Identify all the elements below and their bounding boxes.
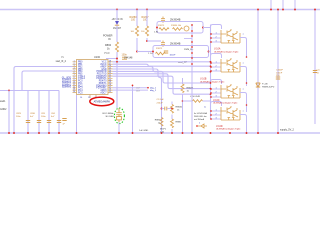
wire IC gnd drop x76.5 — [76, 95, 78, 133]
wire bus fan 1 — [113, 64, 211, 66]
svg-text:100: 100 — [131, 19, 136, 22]
junction x117/y58 — [116, 58, 118, 60]
wire bus fan 4 — [113, 71, 211, 83]
IC U100 ATmega body — [77, 60, 109, 95]
svg-text:100nF: 100nF — [276, 72, 283, 74]
svg-text:B2MINI0: B2MINI0 — [62, 87, 72, 89]
box Q2 driver — [153, 46, 209, 58]
transistor Q1 — [184, 26, 189, 31]
svg-text:supply_5V_2: supply_5V_2 — [280, 129, 294, 132]
svg-text:U 10C: U 10C — [213, 100, 220, 102]
diode D102 on x258 — [256, 83, 260, 87]
bottom rail junction dots — [191, 132, 193, 134]
capacitor C5 100n — [122, 57, 127, 59]
darlington cell U10D — [211, 102, 222, 107]
wire crystal to gnd — [118, 122, 120, 133]
wire bus fan 6 — [113, 76, 211, 94]
svg-text:ULN/SA Darlington Triple: ULN/SA Darlington Triple — [216, 128, 241, 131]
box Q1 driver — [157, 22, 203, 34]
svg-text:ULN/SA Darlington Triple: ULN/SA Darlington Triple — [213, 102, 238, 105]
resistor R884B inline on x182.5 — [182, 78, 184, 84]
junction x137 y51.5 — [136, 51, 138, 53]
wire L2 to IC — [22, 71, 73, 91]
wire stub row 87.7 with net label — [113, 87, 149, 89]
wire output U10B — [240, 67, 247, 87]
darlington cell U10C — [211, 80, 222, 85]
wire bus straight row — [113, 61, 211, 63]
svg-text:U 10D: U 10D — [216, 126, 223, 128]
wire x9 drop — [8, 91, 10, 134]
wire vertical rail C x314 — [314, 10, 316, 125]
highlight green dashed ellipse — [114, 108, 124, 124]
junction x117 row1 — [116, 61, 118, 63]
resistor R1878 — [173, 28, 183, 31]
wire supply stub x282 — [282, 0, 284, 10]
svg-text:C17: C17 — [317, 70, 320, 72]
wire output U10D — [240, 115, 247, 135]
wire x147 to C16 — [147, 40, 161, 42]
svg-text:PWM_B +: PWM_B + — [184, 49, 194, 51]
svg-text:PWR: PWR — [104, 52, 110, 55]
capacitor C85 — [62, 119, 66, 121]
svg-text:30 OHM: 30 OHM — [105, 116, 113, 118]
wire supply stub x270 — [270, 0, 272, 10]
junction x147 y41 — [146, 40, 148, 42]
svg-text:R885: R885 — [155, 120, 161, 122]
wire output U10C — [240, 93, 247, 113]
resistor R884b drop x172 — [171, 102, 173, 105]
wire vertical rail B x278 — [277, 10, 279, 134]
wire bus fan 5 — [113, 74, 211, 89]
diode D100 1N4007 — [115, 21, 119, 25]
svg-text:1x: 1x — [204, 107, 206, 109]
wire vertical rail A x258 — [257, 10, 259, 134]
wire drop x182.5 lower — [182, 101, 184, 133]
svg-text:GND2: GND2 — [0, 109, 7, 111]
wire x117 down to crystal — [116, 52, 118, 108]
junction dots on top rail — [116, 9, 118, 11]
wire drop x132.5 — [132, 85, 134, 133]
wire top +5V rail — [0, 9, 320, 11]
svg-text:R1880 10k: R1880 10k — [171, 25, 182, 27]
svg-text:U 10B: U 10B — [200, 79, 207, 81]
wire left GND horizontal — [0, 90, 59, 92]
wire L1 to IC — [14, 67, 73, 134]
svg-text:100nF: 100nF — [170, 54, 177, 56]
wire stub row 90.1 with net label — [113, 89, 149, 91]
svg-text:R1875: R1875 — [156, 48, 163, 50]
wire stubs left of x192 — [184, 32, 192, 34]
svg-text:U100: U100 — [94, 56, 101, 59]
resistor R885 on x161.5 — [160, 118, 163, 127]
darlington cell U10B — [211, 54, 222, 59]
capacitor C17 on x314 — [313, 71, 317, 73]
wire output U10A — [240, 38, 247, 58]
wire cell input bus x210.5 — [210, 25, 212, 120]
wire cap branch x28 — [27, 91, 29, 134]
resistor R1875 — [156, 52, 166, 55]
darlington cell U10A — [211, 25, 222, 30]
wire VCC feed to IC — [106, 58, 117, 60]
capacitor C32 — [47, 121, 51, 123]
svg-text:dbg_2: dbg_2 — [150, 90, 157, 92]
svg-text:RGB LED drv: RGB LED drv — [194, 115, 208, 118]
svg-text:PC5: PC5 — [78, 92, 83, 94]
svg-text:U 10A: U 10A — [214, 48, 221, 51]
svg-text:C9 1uF: C9 1uF — [157, 99, 165, 101]
svg-text:R1875: R1875 — [158, 25, 165, 27]
svg-text:25V: 25V — [276, 75, 280, 77]
wire supply stub x294 — [294, 0, 296, 10]
svg-text:ULN/SA Darlington Triple: ULN/SA Darlington Triple — [200, 80, 225, 83]
svg-text:HSMS-52P0: HSMS-52P0 — [262, 86, 275, 88]
svg-text:swd1: swd1 — [0, 101, 6, 103]
resistor R1877 — [159, 28, 169, 31]
capacitor C17b — [164, 51, 168, 53]
highlight red ellipse around part value — [90, 97, 114, 106]
svg-text:1uF GND: 1uF GND — [139, 130, 149, 132]
wire bus fan 3 — [113, 69, 162, 133]
resistor L100 — [193, 100, 203, 103]
svg-text:out 350mA: out 350mA — [194, 118, 205, 121]
junction dots bus x192 — [191, 24, 193, 26]
resistor R884 — [115, 42, 118, 52]
svg-text:BCO 8MHz: BCO 8MHz — [102, 113, 113, 115]
wire x117 drop — [116, 10, 118, 21]
capacitor C15 — [161, 17, 165, 23]
svg-text:C16DF: C16DF — [276, 70, 284, 72]
crystal Y1 — [116, 108, 122, 122]
wire cap branch x49 — [48, 91, 50, 134]
svg-text:ADC7: ADC7 — [100, 91, 107, 94]
capacitor C16D on x278 — [276, 77, 280, 79]
svg-text:220uF: 220uF — [157, 102, 164, 104]
svg-text:R884B: R884B — [187, 88, 194, 90]
svg-text:IN: IN — [108, 38, 111, 41]
capacitor C33 — [57, 121, 61, 123]
capacitor C9 branch on x161.5 — [161, 108, 163, 110]
capacitor C16 — [161, 41, 165, 47]
wire cap branch x59 — [58, 91, 60, 134]
svg-text:swd_IF_2: swd_IF_2 — [56, 60, 67, 63]
diode D101 — [198, 124, 207, 128]
svg-text:MCP1: MCP1 — [160, 129, 167, 131]
svg-text:ULN/SA Darlington Triple: ULN/SA Darlington Triple — [214, 50, 239, 53]
IC U100 pins — [73, 61, 113, 63]
svg-text:C830: C830 — [30, 113, 36, 115]
wire cap branch x39 — [38, 91, 40, 134]
svg-text:1N4148: 1N4148 — [124, 57, 133, 60]
capacitor C31 — [37, 121, 41, 123]
wire horizontal y101 — [183, 100, 193, 102]
wire x117 mid — [116, 26, 118, 43]
wire gnd return x192 — [191, 24, 193, 133]
wire B2 out to bus — [209, 51, 211, 53]
svg-text:ATMEGA48PA: ATMEGA48PA — [94, 101, 111, 104]
wire B1 out to bus — [203, 27, 211, 29]
capacitor C30 — [26, 121, 30, 123]
IC U100 bottom pins — [90, 95, 96, 99]
svg-text:P+1B: P+1B — [262, 84, 268, 86]
resistor R886 lower x172 — [171, 119, 174, 128]
wire bottom GND rail — [0, 132, 320, 134]
wire feed Q2 box — [137, 51, 153, 53]
svg-text:4x ULN2003A: 4x ULN2003A — [194, 112, 208, 115]
svg-text:R886: R886 — [176, 122, 182, 124]
svg-text:C829: C829 — [16, 113, 22, 115]
wire bus fan 2 — [113, 67, 211, 72]
svg-text:R884b: R884b — [176, 107, 183, 109]
